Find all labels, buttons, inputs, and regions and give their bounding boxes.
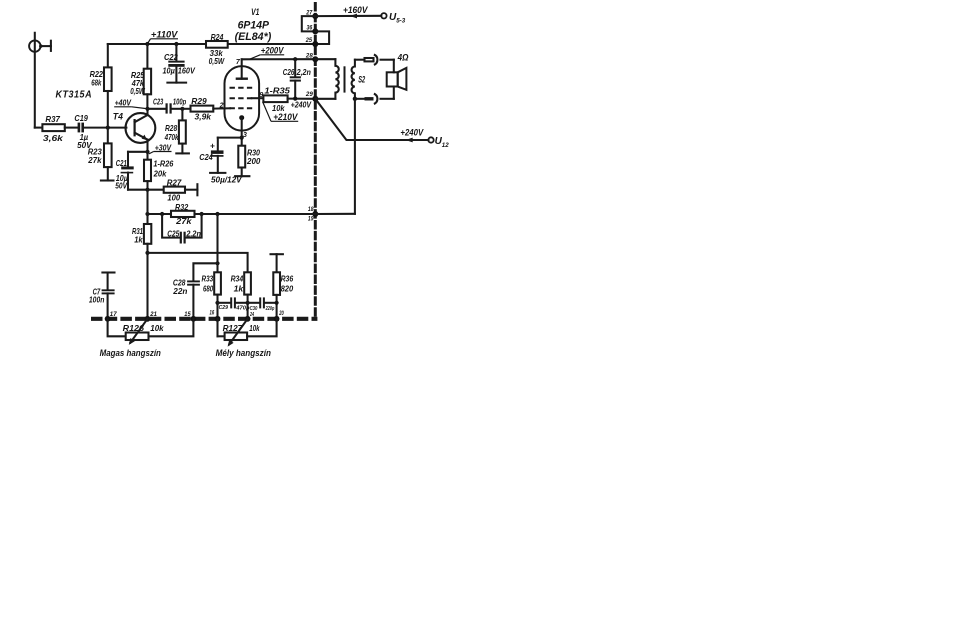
anode (pin 7)	[236, 59, 248, 79]
capacitor C25	[162, 214, 202, 244]
svg-text:100: 100	[167, 192, 180, 202]
svg-text:20k: 20k	[153, 168, 167, 178]
wire C19 to base	[84, 127, 126, 129]
svg-text:16: 16	[210, 309, 215, 316]
resistor R31	[132, 224, 151, 319]
svg-text:R37: R37	[45, 114, 60, 124]
svg-text:2,2n: 2,2n	[296, 67, 311, 77]
capacitor C7	[89, 273, 115, 319]
svg-text:+200V: +200V	[261, 46, 284, 56]
svg-text:+: +	[210, 140, 215, 150]
pin 29	[305, 91, 318, 102]
tube V1 6P14P	[225, 7, 272, 131]
speaker 4ohm	[387, 52, 409, 99]
wire R31 to R34	[148, 253, 248, 272]
input jack J1	[29, 33, 51, 128]
wire secondary return to pin 18-19	[315, 99, 355, 214]
wire +240V to U12	[315, 99, 428, 143]
svg-text:27k: 27k	[87, 155, 101, 165]
capacitor C30	[248, 297, 279, 311]
pin 16	[210, 309, 221, 321]
svg-text:KT315A: KT315A	[56, 90, 93, 101]
pin 28	[305, 53, 318, 63]
resistor R25	[130, 44, 151, 109]
node emitter chain R32 junction	[145, 212, 149, 216]
svg-text:R36: R36	[281, 274, 294, 284]
wire +110V rail	[108, 42, 315, 46]
pin 20	[274, 310, 284, 321]
svg-text:Mély hangszín: Mély hangszín	[216, 348, 272, 358]
connector plug bottom	[353, 94, 394, 104]
svg-text:C21: C21	[116, 158, 127, 168]
grid g2 (pin 9)	[230, 92, 264, 99]
node C23-R29-R28	[180, 107, 184, 111]
pin 15	[184, 311, 196, 321]
svg-text:C30: C30	[250, 306, 258, 312]
terminal U5-3	[381, 12, 406, 25]
svg-text:R34: R34	[231, 274, 244, 284]
svg-text:C19: C19	[74, 113, 88, 123]
svg-text:R33: R33	[202, 274, 214, 284]
svg-text:19: 19	[308, 216, 314, 223]
node +200V	[250, 46, 285, 60]
svg-text:C22: C22	[164, 52, 178, 62]
svg-text:1-R26: 1-R26	[153, 159, 173, 169]
svg-text:3,9k: 3,9k	[195, 111, 212, 121]
svg-text:100n: 100n	[89, 295, 105, 305]
capacitor C23	[148, 97, 187, 114]
capacitor C21	[115, 152, 147, 191]
svg-text:470k: 470k	[164, 132, 179, 142]
svg-text:2: 2	[219, 102, 224, 109]
svg-text:R126: R126	[123, 323, 145, 333]
resistor R33	[202, 263, 221, 319]
capacitor C29	[215, 297, 250, 311]
potentiometer R126	[108, 319, 194, 345]
svg-text:220p: 220p	[265, 306, 275, 312]
svg-text:1k: 1k	[234, 284, 244, 294]
svg-text:R127: R127	[223, 323, 243, 333]
svg-text:+160V: +160V	[343, 5, 368, 15]
capacitor C24	[199, 138, 243, 185]
svg-text:50V: 50V	[115, 180, 128, 190]
svg-text:25: 25	[305, 37, 313, 44]
node R31 bottom	[145, 251, 149, 255]
wire R26 bottom to R32 node	[146, 190, 148, 224]
pin 25	[305, 37, 319, 47]
wire R32 to pin 18-19	[195, 212, 316, 216]
resistor R34	[231, 272, 251, 319]
svg-text:R32: R32	[175, 202, 188, 212]
pin 24	[245, 312, 255, 322]
svg-text:200: 200	[246, 156, 261, 166]
grid g3 dashes	[230, 87, 253, 89]
svg-text:5-3: 5-3	[396, 17, 406, 24]
transistor T4	[113, 109, 155, 160]
node base junction	[106, 126, 110, 130]
capacitor C28	[172, 263, 217, 319]
wire connector trunk (heavy dashed)	[314, 2, 317, 319]
resistor R30	[235, 146, 261, 177]
svg-text:R27: R27	[167, 177, 182, 187]
cathode (pin 3)	[239, 115, 247, 146]
connector plug top	[355, 55, 394, 65]
svg-text:100p: 100p	[173, 97, 186, 107]
resistor R37	[35, 114, 65, 143]
svg-text:+40V: +40V	[115, 97, 133, 107]
resistor R29	[182, 96, 230, 121]
svg-text:15: 15	[184, 311, 191, 318]
resistor R22	[90, 44, 112, 128]
node +110V	[147, 29, 178, 43]
svg-text:+240V: +240V	[291, 100, 313, 110]
capacitor C26	[283, 57, 311, 98]
node +40V	[114, 97, 149, 111]
svg-text:10k: 10k	[249, 323, 260, 333]
svg-text:12: 12	[442, 142, 449, 149]
svg-text:68k: 68k	[91, 77, 101, 87]
transformer core	[344, 66, 346, 92]
node emitter-R27	[145, 188, 149, 192]
transformer S2 secondary	[352, 60, 366, 99]
svg-text:C29: C29	[219, 305, 229, 311]
svg-text:S2: S2	[358, 74, 365, 84]
svg-text:36: 36	[307, 25, 313, 32]
svg-text:+210V: +210V	[273, 112, 298, 122]
svg-text:1-R35: 1-R35	[264, 85, 290, 95]
resistor R26	[144, 159, 174, 190]
wire bracket 36-25	[315, 31, 329, 44]
pin 36	[307, 25, 319, 35]
potentiometer R127	[218, 319, 277, 347]
grid g1 (pin 2)	[230, 107, 253, 109]
capacitor C22	[163, 44, 197, 83]
pin 17	[105, 311, 117, 321]
svg-text:+110V: +110V	[151, 29, 179, 39]
svg-text:C26: C26	[283, 67, 295, 77]
node +30V	[145, 143, 172, 154]
svg-text:1k: 1k	[134, 234, 143, 244]
svg-text:T4: T4	[113, 111, 123, 121]
svg-text:29: 29	[305, 91, 313, 98]
svg-text:24: 24	[249, 312, 254, 318]
svg-text:21: 21	[149, 311, 157, 318]
svg-text:4Ω: 4Ω	[397, 52, 409, 62]
svg-text:820: 820	[281, 284, 294, 294]
resistor R23	[87, 128, 113, 181]
wire bracket 27-36	[302, 16, 316, 31]
resistor R28	[164, 109, 189, 154]
wire +160V	[315, 5, 381, 19]
svg-text:22n: 22n	[172, 286, 187, 296]
svg-text:160V: 160V	[178, 66, 196, 76]
resistor R32	[148, 202, 204, 226]
capacitor C19	[65, 113, 93, 150]
svg-text:6P14P: 6P14P	[238, 19, 270, 31]
resistor R35	[263, 85, 315, 113]
svg-text:28: 28	[305, 53, 313, 60]
pin 27	[305, 9, 318, 19]
svg-text:(EL84*): (EL84*)	[235, 31, 272, 43]
node cathode-C24	[240, 136, 244, 140]
pin 21	[145, 311, 158, 321]
svg-text:10k: 10k	[150, 323, 164, 333]
svg-text:+240V: +240V	[400, 128, 424, 138]
svg-text:3,6k: 3,6k	[43, 133, 63, 143]
svg-text:0,5W: 0,5W	[209, 56, 225, 66]
svg-text:R29: R29	[191, 96, 207, 106]
svg-text:680: 680	[203, 284, 213, 294]
svg-text:C25: C25	[167, 229, 179, 239]
svg-text:18: 18	[308, 206, 314, 213]
terminal U12	[428, 136, 449, 149]
svg-text:20: 20	[279, 310, 285, 317]
svg-text:0,5W: 0,5W	[130, 86, 145, 96]
svg-text:V1: V1	[251, 7, 259, 17]
resistor R24	[206, 32, 228, 66]
svg-text:2,2n: 2,2n	[186, 229, 201, 239]
svg-text:17: 17	[110, 311, 117, 318]
wire bottom bus (heavy dashed)	[91, 317, 317, 321]
resistor R27	[148, 177, 198, 202]
pin 18-19	[308, 206, 318, 222]
transformer S2 primary	[315, 59, 338, 99]
wire tone tap vertical	[215, 214, 219, 265]
svg-text:470p: 470p	[235, 306, 250, 312]
node +210V	[263, 102, 299, 122]
svg-text:R24: R24	[211, 32, 224, 42]
svg-text:C24: C24	[199, 152, 213, 162]
svg-text:27k: 27k	[175, 216, 192, 226]
svg-text:10µ: 10µ	[163, 66, 175, 76]
wire anode to pin 28	[242, 58, 316, 60]
resistor R36	[271, 254, 294, 319]
svg-text:Magas hangszín: Magas hangszín	[100, 348, 162, 358]
svg-text:C23: C23	[153, 97, 163, 107]
